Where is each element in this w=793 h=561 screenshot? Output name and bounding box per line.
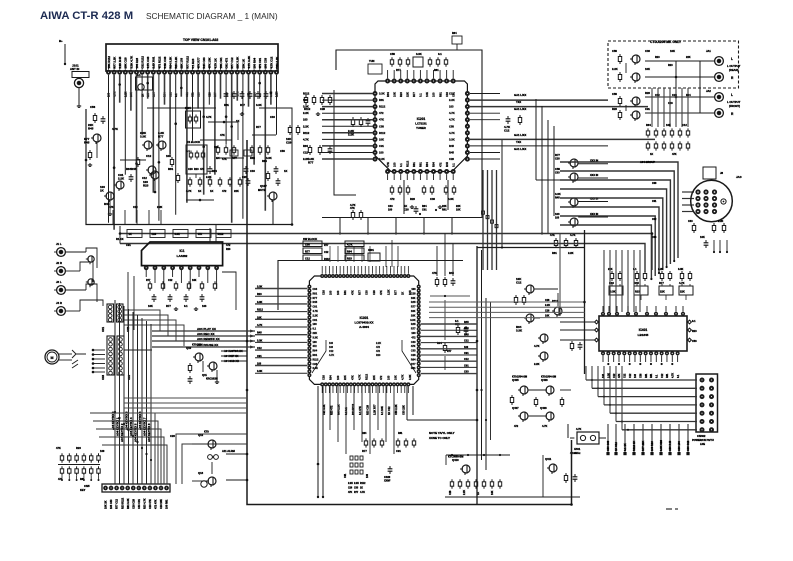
- transistor Q105: [116, 181, 124, 189]
- svg-text:3.3K: 3.3K: [408, 374, 412, 380]
- connector CN5 pins: [103, 486, 108, 491]
- svg-text:2.2K: 2.2K: [718, 220, 723, 223]
- svg-text:R81: R81: [313, 292, 318, 295]
- svg-text:A04 PLAY XX: A04 PLAY XX: [197, 327, 216, 331]
- svg-text:47K R77: 47K R77: [197, 57, 201, 68]
- svg-text:3.3K: 3.3K: [610, 290, 616, 294]
- ground: [109, 212, 111, 214]
- svg-text:R81: R81: [552, 251, 557, 255]
- IC301 body: [309, 276, 418, 384]
- svg-text:103: 103: [329, 342, 334, 345]
- svg-text:A04 KEY/XX 5: A04 KEY/XX 5: [133, 423, 137, 442]
- svg-text:2.2K: 2.2K: [568, 251, 574, 255]
- svg-text:10K: 10K: [379, 137, 384, 141]
- terminal stubs bottom right: [607, 424, 609, 452]
- wire box around IC201: [322, 50, 482, 218]
- svg-text:XXX IN: XXX IN: [590, 174, 598, 177]
- svg-text:C33: C33: [411, 350, 416, 353]
- svg-text:2.2K R45: 2.2K R45: [118, 56, 122, 68]
- wire: [429, 301, 585, 303]
- transistor Q411: [549, 464, 557, 472]
- svg-text:3.3K: 3.3K: [256, 103, 262, 107]
- svg-text:3.3K: 3.3K: [313, 367, 318, 370]
- svg-text:R77: R77: [313, 297, 318, 300]
- capacitor C215: [415, 206, 417, 209]
- svg-text:C12: C12: [464, 358, 469, 361]
- transistor Q403: [554, 307, 562, 315]
- svg-text:LB1845: LB1845: [638, 333, 649, 337]
- svg-text:LC72131: LC72131: [415, 122, 427, 126]
- svg-text:22K: 22K: [313, 332, 318, 335]
- connector CN5 body: [102, 484, 170, 492]
- svg-text:C33 C91: C33 C91: [138, 499, 141, 509]
- resistor R421: [511, 395, 513, 398]
- svg-text:C33 100: C33 100: [677, 441, 681, 451]
- svg-text:L: L: [731, 57, 733, 61]
- svg-text:100: 100: [313, 323, 318, 326]
- ground: [216, 380, 218, 382]
- svg-text:R81: R81: [313, 354, 318, 357]
- svg-text:472: 472: [438, 162, 442, 167]
- wire inner box: [278, 261, 463, 311]
- svg-text:103: 103: [329, 346, 334, 349]
- svg-text:10K: 10K: [425, 92, 429, 97]
- connector CN4 body: [117, 336, 124, 375]
- svg-text:C28: C28: [668, 102, 673, 105]
- svg-text:3.3K: 3.3K: [516, 328, 523, 332]
- resistor R410: [571, 341, 573, 344]
- svg-text:472: 472: [379, 375, 383, 380]
- wire: [625, 63, 627, 73]
- svg-text:AIWA CT-R 428 M: AIWA CT-R 428 M: [40, 10, 133, 22]
- transistor Q202: [570, 173, 578, 181]
- svg-text:C33: C33: [430, 197, 435, 201]
- svg-text:10K: 10K: [192, 279, 197, 282]
- svg-text:R81: R81: [411, 367, 416, 370]
- wire: [559, 234, 561, 317]
- svg-text:103: 103: [634, 373, 637, 378]
- svg-text:10K: 10K: [411, 314, 416, 317]
- IC401 bottom pins: [601, 351, 605, 355]
- svg-text:C56: C56: [280, 149, 285, 153]
- capacitor C430: [574, 474, 576, 477]
- svg-text:(REAR): (REAR): [729, 68, 739, 72]
- svg-text:2.2K: 2.2K: [386, 289, 390, 295]
- svg-text:C12: C12: [516, 280, 522, 284]
- svg-text:C28: C28: [348, 488, 353, 490]
- svg-text:R23: R23: [410, 197, 415, 201]
- resistor cluster B: [289, 125, 291, 128]
- svg-text:C56: C56: [90, 105, 96, 109]
- svg-text:10K: 10K: [394, 375, 398, 380]
- capacitor C310: [705, 240, 707, 243]
- svg-text:SCHEMATIC DIAGRAM _ 1 (MAIN): SCHEMATIC DIAGRAM _ 1 (MAIN): [146, 11, 278, 21]
- transistor Q405: [520, 386, 528, 394]
- svg-text:A04 KEY/XX 8: A04 KEY/XX 8: [147, 423, 151, 442]
- svg-text:TXX: TXX: [516, 140, 521, 144]
- svg-text:R23: R23: [612, 107, 617, 111]
- transistor Q301: [632, 55, 640, 63]
- svg-text:R81: R81: [442, 208, 447, 211]
- svg-text:C33: C33: [354, 488, 359, 490]
- svg-text:3.3K: 3.3K: [449, 137, 455, 141]
- svg-text:4.7K: 4.7K: [358, 374, 362, 380]
- array stubs below: [61, 476, 63, 479]
- transistor Q401: [526, 285, 534, 293]
- svg-text:0.1: 0.1: [692, 320, 696, 323]
- svg-text:103: 103: [202, 304, 207, 308]
- top-left filler resistors row1: [217, 145, 219, 148]
- svg-text:C56: C56: [612, 92, 617, 96]
- svg-text:C320: C320: [384, 475, 391, 479]
- svg-text:100: 100: [379, 151, 384, 155]
- svg-text:(FRONT): (FRONT): [729, 104, 740, 108]
- svg-text:100: 100: [366, 473, 369, 478]
- svg-text:R77: R77: [412, 92, 416, 97]
- wire: [445, 455, 447, 465]
- svg-text:47K: 47K: [618, 373, 621, 378]
- wires into CN402: [586, 379, 697, 381]
- svg-text:C12: C12: [329, 350, 334, 353]
- svg-text:LA4282: LA4282: [177, 254, 188, 258]
- jack JA201 R: [715, 73, 724, 82]
- svg-text:2.2K: 2.2K: [379, 157, 385, 161]
- svg-text:J8: J8: [720, 171, 723, 175]
- svg-text:472: 472: [226, 243, 231, 247]
- svg-text:C91: C91: [379, 144, 384, 148]
- svg-text:C91 472: C91 472: [225, 57, 229, 68]
- svg-text:103: 103: [303, 118, 308, 122]
- svg-text:R112: R112: [313, 358, 319, 361]
- svg-text:C33: C33: [313, 288, 318, 291]
- resistor R420: [535, 397, 537, 400]
- ground: [89, 163, 91, 165]
- capacitor C20: [189, 376, 191, 379]
- svg-text:C28 10K: C28 10K: [160, 499, 163, 509]
- svg-text:C28: C28: [152, 233, 157, 236]
- resistor cluster left of IC201: [352, 117, 354, 120]
- svg-text:R23: R23: [76, 446, 81, 450]
- IC301 top pins: [320, 274, 324, 278]
- wire: [221, 350, 247, 352]
- svg-text:R45: R45: [555, 196, 560, 199]
- connector CN2 body: [117, 304, 124, 322]
- svg-text:100: 100: [464, 346, 469, 349]
- svg-text:GA1 L/XX: GA1 L/XX: [514, 133, 526, 137]
- resistor R303: [619, 96, 621, 99]
- svg-text:R77: R77: [158, 134, 164, 138]
- wire horizontal y248: [477, 247, 585, 249]
- svg-text:C28: C28: [404, 208, 409, 211]
- wires above CN5: [114, 300, 116, 484]
- svg-text:CT-XA204 MK ONLY: CT-XA204 MK ONLY: [650, 40, 682, 44]
- wire: [560, 389, 571, 391]
- svg-text:C91: C91: [313, 319, 318, 322]
- svg-text:1K: 1K: [360, 488, 363, 490]
- transistor Q406: [546, 386, 554, 394]
- svg-text:47K: 47K: [350, 206, 355, 210]
- svg-text:2.2K: 2.2K: [118, 176, 125, 180]
- svg-text:R112: R112: [379, 131, 386, 135]
- svg-text:4.7K: 4.7K: [576, 428, 581, 431]
- svg-text:C91: C91: [464, 352, 469, 355]
- wire: [124, 349, 152, 351]
- resistor R430: [565, 473, 567, 476]
- svg-text:C28 47K: C28 47K: [149, 499, 152, 509]
- IC201 top pins: [385, 79, 390, 84]
- svg-text:C56: C56: [449, 124, 454, 128]
- transistor Q107: [269, 192, 277, 200]
- svg-text:R112: R112: [303, 92, 310, 96]
- wire: [211, 462, 213, 474]
- transistor Q101: [93, 134, 101, 142]
- svg-text:R112: R112: [303, 131, 310, 135]
- resistor R422: [561, 397, 563, 400]
- svg-text:A04 KEY/XX 7: A04 KEY/XX 7: [142, 417, 146, 436]
- svg-text:R45: R45: [464, 333, 469, 336]
- svg-text:2.2K: 2.2K: [463, 490, 466, 495]
- svg-text:R45: R45: [313, 301, 318, 304]
- svg-text:R77: R77: [358, 290, 362, 295]
- capacitor C320: [389, 466, 391, 469]
- svg-text:103: 103: [303, 98, 308, 102]
- svg-text:C12: C12: [303, 151, 308, 155]
- transistor Q13: [208, 477, 216, 485]
- svg-text:3.3K: 3.3K: [175, 233, 180, 236]
- svg-text:4.7K: 4.7K: [303, 137, 309, 141]
- wire: [542, 455, 544, 497]
- svg-text:3.3K C33: 3.3K C33: [163, 56, 167, 68]
- svg-text:R45: R45: [449, 144, 454, 148]
- svg-text:R45: R45: [445, 162, 449, 167]
- wire B+ stub: [64, 44, 66, 64]
- transistor Q302: [632, 73, 640, 81]
- svg-text:47K: 47K: [222, 157, 227, 161]
- wire: [528, 389, 546, 391]
- svg-text:C28: C28: [545, 299, 550, 302]
- svg-text:472 R112: 472 R112: [157, 56, 161, 68]
- svg-text:R64: R64: [362, 432, 367, 435]
- wire: [59, 353, 72, 355]
- svg-text:3.3K: 3.3K: [257, 339, 262, 342]
- svg-text:472: 472: [313, 345, 318, 348]
- svg-text:1K: 1K: [236, 119, 239, 123]
- sub box mid: [186, 111, 201, 128]
- svg-text:3.3K: 3.3K: [555, 192, 561, 196]
- svg-text:Q406: Q406: [541, 378, 548, 382]
- resistor cluster C: [309, 145, 311, 148]
- svg-text:3.3K: 3.3K: [313, 336, 318, 339]
- svg-text:100 R23: 100 R23: [650, 441, 654, 451]
- IC201 bottom pins: [385, 169, 390, 174]
- svg-text:3.3K: 3.3K: [410, 319, 415, 322]
- svg-text:R45: R45: [257, 332, 262, 335]
- svg-text:C28: C28: [322, 290, 326, 295]
- svg-text:1K: 1K: [401, 292, 405, 295]
- svg-text:47K: 47K: [379, 118, 384, 122]
- svg-text:R77: R77: [447, 350, 452, 353]
- svg-text:2.2K: 2.2K: [658, 268, 663, 271]
- svg-text:100: 100: [411, 332, 416, 335]
- svg-text:C56: C56: [390, 52, 395, 56]
- svg-text:4.7K: 4.7K: [329, 354, 334, 357]
- svg-text:100: 100: [100, 449, 105, 453]
- transistor Q404: [540, 334, 548, 342]
- svg-text:R81: R81: [438, 92, 442, 97]
- svg-text:R77: R77: [240, 103, 245, 107]
- transistor Q203: [570, 198, 578, 206]
- svg-text:L: L: [731, 93, 733, 97]
- svg-text:R23: R23: [692, 330, 697, 333]
- svg-text:R77: R77: [394, 290, 398, 295]
- svg-text:2.2K: 2.2K: [303, 111, 309, 115]
- svg-text:472: 472: [379, 111, 384, 115]
- svg-text:C56: C56: [612, 49, 617, 53]
- connector JA301 pins: [695, 189, 700, 194]
- svg-text:XXNE TC ONLY: XXNE TC ONLY: [429, 436, 450, 440]
- small box above DIN: [703, 167, 716, 179]
- svg-text:100: 100: [336, 375, 340, 380]
- svg-text:1K C12: 1K C12: [388, 406, 391, 415]
- svg-text:22K: 22K: [660, 290, 665, 294]
- svg-text:R23: R23: [376, 354, 381, 357]
- ground: [78, 104, 80, 106]
- svg-text:3.3K: 3.3K: [257, 370, 262, 373]
- svg-text:L OUTPUT: L OUTPUT: [727, 100, 741, 104]
- svg-text:X301: X301: [368, 249, 374, 252]
- IC201 body: [375, 81, 467, 172]
- top-left filler caps: [209, 166, 211, 169]
- IC201 right wires: [470, 99, 608, 101]
- svg-text:4.7K: 4.7K: [186, 189, 192, 193]
- svg-text:C28: C28: [320, 107, 325, 111]
- svg-text:C28 2.2K: C28 2.2K: [275, 57, 279, 69]
- svg-text:0.1 R23: 0.1 R23: [191, 58, 195, 68]
- transistor Q108: [148, 166, 156, 174]
- transistor Q12: [208, 440, 216, 448]
- svg-text:C12: C12: [682, 123, 687, 127]
- svg-text:1K: 1K: [198, 189, 201, 193]
- wire: [291, 194, 293, 225]
- svg-text:C28: C28: [372, 290, 376, 295]
- svg-text:C12 R112: C12 R112: [141, 56, 145, 69]
- svg-text:CN5: CN5: [84, 484, 90, 488]
- wire bundle to DIN connector: [560, 162, 678, 258]
- components above IC301: [329, 246, 331, 262]
- svg-text:0.1: 0.1: [438, 52, 442, 56]
- svg-text:4.7K: 4.7K: [671, 373, 674, 378]
- transistor Q402: [526, 314, 534, 322]
- svg-text:GA1 L/XX: GA1 L/XX: [514, 107, 526, 111]
- svg-text:R64: R64: [646, 123, 651, 127]
- svg-text:472: 472: [514, 425, 519, 428]
- svg-text:C01: C01: [652, 200, 657, 203]
- svg-text:0.1: 0.1: [419, 93, 423, 97]
- svg-text:C28: C28: [313, 363, 318, 366]
- svg-text:R77: R77: [411, 363, 416, 366]
- wire: [195, 174, 197, 178]
- svg-text:Q107: Q107: [260, 184, 267, 188]
- svg-text:10K: 10K: [545, 315, 550, 318]
- svg-text:JA3: JA3: [736, 175, 742, 179]
- svg-text:JA2: JA2: [706, 89, 711, 93]
- svg-text:R23: R23: [645, 91, 650, 95]
- jack J4 REC R: [57, 307, 66, 316]
- svg-text:1K: 1K: [650, 153, 653, 156]
- svg-text:4.7K: 4.7K: [206, 115, 212, 119]
- svg-text:10K: 10K: [257, 316, 262, 319]
- svg-text:10K: 10K: [456, 208, 461, 211]
- svg-text:R77: R77: [324, 244, 329, 247]
- wire: [444, 300, 446, 340]
- svg-text:C28: C28: [555, 157, 560, 160]
- svg-text:C33 22K: C33 22K: [402, 405, 405, 415]
- svg-text:C56 C33: C56 C33: [606, 440, 610, 451]
- svg-text:100: 100: [411, 288, 416, 291]
- resistor R20: [189, 363, 191, 366]
- svg-text:2.2K: 2.2K: [545, 304, 550, 307]
- svg-text:C33 C12: C33 C12: [686, 440, 690, 451]
- ground: [195, 307, 197, 309]
- jack J1 LINE L: [57, 248, 66, 257]
- wire: [699, 61, 701, 113]
- svg-text:47K: 47K: [386, 162, 390, 167]
- svg-text:LNE: LNE: [700, 443, 705, 446]
- svg-text:3.3K: 3.3K: [266, 156, 272, 160]
- svg-text:C56 2.2K: C56 2.2K: [395, 404, 398, 415]
- svg-text:R112: R112: [360, 483, 366, 485]
- svg-text:Q405: Q405: [512, 378, 519, 382]
- svg-text:2.2K: 2.2K: [313, 314, 318, 317]
- svg-text:R45: R45: [104, 202, 110, 206]
- svg-text:C91: C91: [126, 243, 131, 247]
- capacitor C210: [507, 116, 509, 119]
- svg-text:10K: 10K: [670, 49, 675, 53]
- wire stubs left of CN3: [93, 349, 105, 351]
- wire: [560, 321, 595, 323]
- svg-text:22K: 22K: [372, 375, 376, 380]
- switch label boxes: [127, 230, 142, 238]
- svg-text:KRC102M: KRC102M: [206, 378, 218, 381]
- svg-text:10K: 10K: [645, 67, 650, 71]
- svg-text:R23: R23: [143, 183, 149, 187]
- connector CN101 body: [106, 44, 278, 71]
- resonator X401: [577, 432, 599, 444]
- svg-text:R81: R81: [419, 162, 423, 167]
- svg-text:Q407: Q407: [512, 406, 519, 410]
- motor M1: [45, 350, 59, 364]
- wire left border: [86, 109, 292, 225]
- svg-text:CN3: CN3: [102, 374, 105, 380]
- resistor row: [189, 177, 191, 180]
- svg-text:103: 103: [449, 105, 454, 109]
- svg-text:R77: R77: [396, 69, 401, 72]
- svg-text:10K C91: 10K C91: [219, 57, 223, 68]
- svg-text:CN402: CN402: [697, 434, 706, 438]
- svg-text:R64: R64: [329, 375, 333, 380]
- resistor R302: [619, 72, 621, 75]
- IC301 bottom wires: [329, 386, 331, 430]
- svg-text:R81: R81: [168, 167, 174, 171]
- svg-text:A04 KEY/XX 4: A04 KEY/XX 4: [129, 417, 133, 436]
- svg-text:22K: 22K: [680, 290, 685, 294]
- svg-text:10K: 10K: [166, 154, 171, 158]
- svg-text:TXX: TXX: [516, 100, 521, 104]
- transistor QJ2: [88, 279, 94, 285]
- connector CN1 body: [107, 304, 114, 322]
- svg-text:4.7K: 4.7K: [257, 324, 262, 327]
- svg-text:103: 103: [555, 216, 560, 219]
